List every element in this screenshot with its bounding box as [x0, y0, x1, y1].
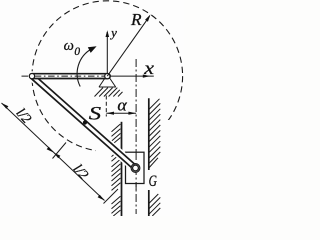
witness tick at B' end toward B	[104, 189, 119, 204]
extension line below pivot O for dimension a	[105, 96, 107, 117]
connecting rod AB (outline bar)	[32, 76, 136, 168]
support hatching at pivot O	[95, 88, 123, 97]
angular velocity arrowhead	[88, 46, 97, 53]
svg-text:α: α	[117, 95, 127, 115]
left guide rail hatching	[112, 124, 121, 216]
left guide rail line	[121, 122, 123, 216]
dimension a left arrowhead	[106, 112, 114, 115]
l/2 dimension line	[2, 103, 105, 201]
dimension a line	[106, 112, 136, 114]
pin at joint A	[29, 74, 34, 79]
dimension arrowhead at A' end	[2, 103, 9, 109]
center of mass S dot	[83, 120, 87, 124]
x axis arrowhead	[143, 75, 150, 78]
svg-text:y: y	[109, 25, 117, 40]
svg-text:0: 0	[74, 46, 80, 58]
guide centerline over slider	[135, 152, 137, 190]
dimension arrowhead at B' end	[98, 195, 105, 201]
dashed trajectory circle of joint A	[32, 1, 183, 152]
slider block G	[126, 152, 145, 183]
x axis	[110, 75, 154, 77]
dimension arrowheads at midpoint	[47, 147, 54, 153]
radius R arrow	[107, 16, 149, 76]
crank axis dash-dot centerline	[22, 75, 106, 77]
dimension a right arrowhead	[128, 112, 136, 115]
svg-text:G: G	[149, 173, 157, 190]
witness tick at midpoint toward S	[53, 143, 67, 159]
R arrowhead	[145, 14, 150, 21]
crank bar OA (outline bar)	[32, 73, 108, 80]
node B guide centerline (dash-dot)	[135, 59, 137, 214]
angular velocity arc	[77, 49, 92, 87]
right guide rail line	[148, 98, 150, 216]
y axis	[106, 32, 108, 73]
svg-text:x: x	[143, 59, 154, 79]
rod end boss at joint B	[131, 164, 140, 173]
svg-text:ω: ω	[64, 38, 74, 54]
y axis arrowhead	[106, 30, 110, 37]
pin at pivot O	[105, 74, 110, 79]
pin at slider joint B	[133, 165, 139, 171]
svg-text:S: S	[89, 102, 101, 124]
support triangle at pivot O	[99, 78, 116, 87]
svg-text:R: R	[130, 10, 142, 29]
right guide rail hatching	[149, 99, 161, 216]
